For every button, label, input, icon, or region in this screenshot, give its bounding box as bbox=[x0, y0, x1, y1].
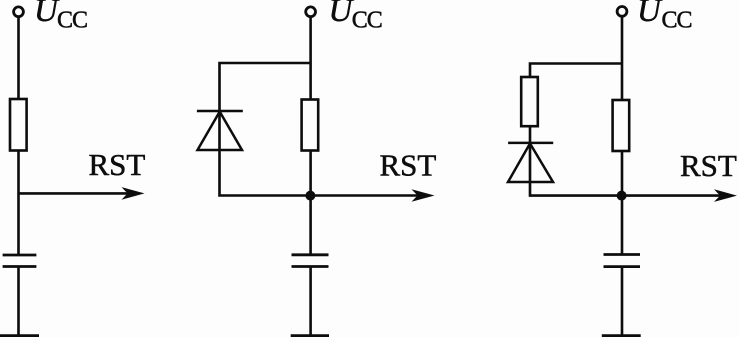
circuit 2: capacitor C2 top plate bbox=[292, 253, 329, 256]
circuit 2: wire from resistor to capacitor bbox=[309, 151, 312, 255]
circuit 3: net label U_CC bbox=[637, 0, 692, 34]
circuit 1: wire from capacitor to ground rail bbox=[17, 267, 20, 336]
circuit 3: wire from capacitor to ground rail bbox=[621, 267, 624, 336]
circuit 1: wire from terminal to resistor bbox=[17, 17, 20, 100]
circuit 3: ground rail bbox=[602, 334, 641, 337]
svg-text:U: U bbox=[637, 0, 663, 29]
circuit 3: RST output wire bbox=[622, 194, 721, 197]
svg-text:CC: CC bbox=[662, 8, 692, 34]
circuit 2: resistor R2 bbox=[302, 100, 319, 151]
circuit 3: junction node bbox=[617, 191, 627, 201]
circuit 2: RST output wire bbox=[311, 194, 418, 197]
circuit 3: diode D2 cathode bar bbox=[508, 142, 553, 145]
circuit 2: wire from capacitor to ground rail bbox=[309, 267, 312, 336]
circuit 2: wire from diode down and right to node bbox=[220, 111, 311, 196]
circuit 3: RST arrowhead bbox=[714, 189, 737, 202]
svg-text:CC: CC bbox=[57, 8, 87, 34]
circuit 3: diode D2 triangle bbox=[508, 144, 553, 183]
circuit 1: wire from resistor through RST junction to capacitor bbox=[17, 151, 20, 256]
circuit 2: junction node bbox=[305, 191, 315, 201]
circuit 3: wire from branch resistor to diode bbox=[529, 126, 532, 143]
circuit 1: net label U_CC bbox=[34, 0, 87, 34]
circuit 3: resistor R4 (main) bbox=[613, 100, 630, 151]
circuit 2: diode D1 cathode bar bbox=[197, 110, 243, 113]
svg-text:RST: RST bbox=[380, 147, 437, 182]
circuit 3: branch wire to resistor bbox=[530, 64, 622, 78]
circuit 2: branch wire to diode bbox=[220, 63, 311, 111]
circuit 2: ground rail bbox=[291, 334, 329, 337]
svg-text:U: U bbox=[329, 0, 355, 29]
circuit 3: wire from diode down and right to node bbox=[530, 143, 622, 196]
circuit 3: capacitor C3 bottom plate bbox=[604, 265, 641, 268]
circuit 1: RST arrowhead bbox=[122, 187, 145, 200]
circuit 2: capacitor C2 bottom plate bbox=[292, 265, 329, 268]
svg-text:CC: CC bbox=[352, 8, 382, 34]
circuit 1: capacitor C1 bottom plate bbox=[3, 265, 37, 268]
svg-text:RST: RST bbox=[89, 147, 146, 182]
circuit 3: main wire from terminal to resistor bbox=[621, 17, 624, 101]
circuit 1: resistor R1 bbox=[10, 99, 27, 151]
circuit 2: diode D1 triangle bbox=[198, 112, 243, 150]
circuit 3: resistor R3 (branch) bbox=[521, 77, 538, 126]
circuit 2: net label U_CC bbox=[329, 0, 382, 34]
circuit 3: power terminal bbox=[617, 6, 627, 16]
circuit 2: RST arrowhead bbox=[412, 189, 435, 202]
circuit 1: ground rail bbox=[0, 334, 39, 337]
circuit 1: RST output wire bbox=[19, 192, 129, 195]
circuit 2: main wire from terminal to resistor bbox=[309, 17, 312, 100]
circuit 3: wire from resistor to capacitor bbox=[621, 151, 624, 255]
circuit 1: power terminal bbox=[14, 7, 24, 17]
circuit 2: power terminal bbox=[306, 7, 316, 17]
svg-text:RST: RST bbox=[680, 148, 737, 183]
circuit 1: capacitor C1 top plate bbox=[3, 254, 37, 257]
circuit 3: capacitor C3 top plate bbox=[604, 253, 641, 256]
